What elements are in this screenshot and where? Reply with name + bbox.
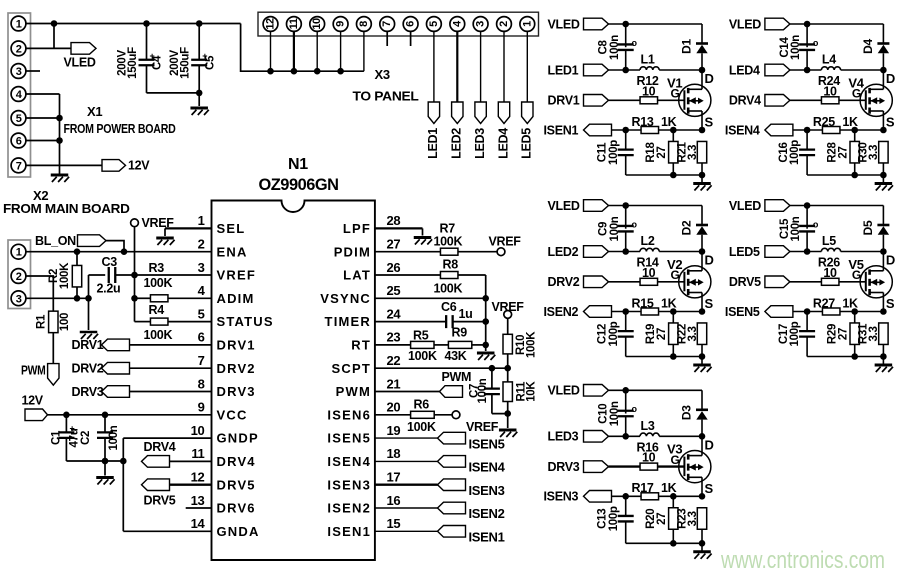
- svg-text:5: 5: [198, 306, 205, 321]
- svg-text:ISEN4: ISEN4: [725, 123, 760, 137]
- svg-text:PWM: PWM: [336, 384, 371, 399]
- wire inductor to drain: [841, 69, 884, 71]
- svg-text:100K: 100K: [408, 349, 437, 363]
- svg-text:C2: C2: [80, 431, 92, 445]
- svg-text:LED2: LED2: [548, 245, 579, 259]
- resistor R17 1K: [612, 495, 642, 497]
- ground: [198, 93, 200, 106]
- wire inductor to drain: [659, 251, 702, 253]
- net label LED2: [452, 102, 463, 124]
- capacitor C8 100n: [625, 24, 627, 47]
- svg-text:3: 3: [475, 21, 487, 27]
- svg-text:100p: 100p: [608, 321, 620, 346]
- svg-text:21: 21: [387, 376, 401, 391]
- node VREF: [504, 311, 512, 319]
- X2 pin 3: [11, 291, 26, 306]
- wire RT pin23: [375, 344, 411, 346]
- wire DRV3: [130, 391, 212, 393]
- svg-text:VLED: VLED: [548, 17, 580, 31]
- svg-text:DRV4: DRV4: [729, 94, 761, 108]
- svg-text:100p: 100p: [608, 140, 620, 165]
- resistor R2 100K: [76, 252, 78, 266]
- svg-text:R9: R9: [452, 325, 468, 339]
- svg-text:STATUS: STATUS: [217, 314, 274, 329]
- capacitor C16 100p: [806, 130, 808, 150]
- svg-text:R6: R6: [414, 397, 430, 411]
- connector X1: [8, 13, 31, 177]
- svg-text:ISEN2: ISEN2: [544, 305, 579, 319]
- wire BL_ON to ENA: [106, 241, 124, 252]
- svg-text:R4: R4: [149, 303, 165, 317]
- wire VREF to pin3: [135, 274, 212, 276]
- svg-text:S: S: [886, 296, 895, 311]
- wire VSYNC pin25: [375, 297, 486, 299]
- wire ISEN4 pin18: [375, 460, 438, 462]
- capacitor C17 100p: [806, 312, 808, 332]
- X3 pin 9: [333, 17, 348, 32]
- mosfet V1: [679, 84, 711, 116]
- diode D2: [701, 206, 703, 225]
- resistor R19 27: [672, 312, 674, 324]
- svg-text:1K: 1K: [842, 296, 858, 310]
- svg-text:27: 27: [656, 146, 668, 158]
- capacitor C5 200V 150uF: [196, 20, 203, 27]
- wire LED to inductor: [609, 69, 641, 71]
- svg-text:6: 6: [198, 330, 205, 345]
- wire PDIM pin27: [375, 251, 441, 253]
- svg-text:6: 6: [405, 21, 417, 27]
- svg-text:R1: R1: [36, 314, 48, 329]
- svg-text:10: 10: [642, 451, 656, 465]
- svg-text:C13: C13: [597, 509, 609, 529]
- svg-text:R13: R13: [632, 115, 654, 129]
- svg-text:L3: L3: [641, 419, 655, 433]
- svg-text:DRV3: DRV3: [72, 385, 104, 399]
- svg-text:3.3: 3.3: [868, 145, 880, 160]
- wire C3 node to ground: [88, 275, 90, 330]
- resistor R20 27: [672, 496, 674, 508]
- wire channel bottom: [626, 356, 702, 358]
- svg-text:+: +: [202, 51, 207, 61]
- node D: [880, 248, 887, 255]
- svg-text:12: 12: [265, 18, 277, 30]
- X1 pin 2: [11, 41, 26, 56]
- svg-text:SEL: SEL: [217, 221, 246, 236]
- svg-text:FROM MAIN BOARD: FROM MAIN BOARD: [3, 202, 130, 216]
- svg-text:www.cntronics.com: www.cntronics.com: [720, 547, 885, 574]
- resistor R11 10K: [503, 382, 512, 402]
- capacitor C2 100n: [104, 415, 106, 433]
- svg-text:L5: L5: [822, 234, 836, 248]
- svg-text:1u: 1u: [459, 307, 473, 321]
- X3 pin 10: [310, 17, 325, 32]
- svg-text:C10: C10: [598, 404, 610, 424]
- wire ISEN3 pin17: [375, 484, 438, 486]
- svg-text:10: 10: [823, 266, 837, 280]
- svg-text:3: 3: [16, 293, 22, 305]
- svg-text:100n: 100n: [477, 378, 489, 403]
- svg-text:o: o: [632, 38, 638, 48]
- svg-text:24: 24: [387, 306, 402, 321]
- svg-text:100p: 100p: [789, 321, 801, 346]
- svg-text:DRV3: DRV3: [217, 384, 256, 399]
- node D: [699, 67, 706, 74]
- wire ISEN6 pin20: [375, 414, 411, 416]
- wire 12V to VCC: [48, 414, 212, 416]
- connector X2: [8, 240, 31, 309]
- svg-text:2: 2: [498, 21, 510, 27]
- svg-text:D1: D1: [679, 39, 693, 54]
- resistor R25 1K: [793, 129, 823, 131]
- svg-text:8: 8: [358, 21, 370, 27]
- ground: [104, 461, 106, 476]
- svg-text:11: 11: [191, 446, 204, 461]
- ground: [701, 357, 703, 366]
- svg-text:19: 19: [387, 423, 401, 438]
- svg-text:ISEN5: ISEN5: [469, 436, 505, 451]
- wire DRV1: [130, 344, 212, 346]
- ground: [156, 237, 174, 240]
- junction: [804, 202, 811, 209]
- svg-text:o: o: [632, 219, 638, 229]
- svg-text:1: 1: [16, 19, 22, 31]
- svg-text:7: 7: [381, 21, 393, 27]
- wire C4 C5 bottom: [147, 92, 200, 94]
- svg-text:X2: X2: [33, 188, 48, 203]
- X3 pin 3: [473, 17, 488, 32]
- net label 12V: [102, 160, 126, 172]
- svg-text:LAT: LAT: [343, 268, 371, 283]
- wire X3 pin6 stub: [410, 31, 412, 46]
- wire ISEN2 pin16: [375, 507, 438, 509]
- svg-text:S: S: [886, 115, 895, 130]
- mosfet V2: [679, 266, 711, 298]
- svg-text:27: 27: [656, 513, 668, 525]
- svg-text:VSYNC: VSYNC: [320, 291, 371, 306]
- wire VLED top: [609, 23, 703, 25]
- svg-text:L2: L2: [641, 234, 655, 248]
- svg-text:VREF: VREF: [492, 300, 525, 314]
- svg-text:ENA: ENA: [217, 244, 248, 259]
- svg-text:100K: 100K: [434, 281, 463, 295]
- capacitor C1 47u: [65, 415, 67, 433]
- svg-text:25: 25: [387, 283, 401, 298]
- svg-text:X1: X1: [87, 104, 102, 119]
- resistor R5 100K: [411, 341, 434, 348]
- resistor R3 100K: [135, 297, 151, 299]
- resistor R7 100K: [440, 248, 458, 255]
- svg-text:GNDA: GNDA: [217, 524, 260, 539]
- capacitor C12 100p: [625, 312, 627, 332]
- svg-text:10: 10: [191, 423, 205, 438]
- svg-text:C3: C3: [102, 255, 118, 269]
- svg-text:100K: 100K: [407, 420, 436, 434]
- resistor R21 3.3: [697, 141, 706, 163]
- svg-text:20: 20: [387, 400, 401, 415]
- svg-text:100K: 100K: [434, 234, 463, 248]
- node VREF: [131, 219, 139, 227]
- wire X1 pins 4-6: [26, 93, 60, 95]
- svg-text:3.3: 3.3: [687, 326, 699, 341]
- svg-text:12: 12: [191, 470, 205, 485]
- svg-text:L1: L1: [641, 53, 655, 67]
- resistor R9 43K: [448, 341, 471, 348]
- svg-text:TO PANEL: TO PANEL: [353, 89, 419, 104]
- svg-text:LED1: LED1: [426, 128, 440, 159]
- X3 pin 6: [403, 17, 418, 32]
- svg-text:OZ9906GN: OZ9906GN: [259, 175, 339, 194]
- ground: [51, 174, 69, 177]
- resistor R12 10: [609, 99, 641, 101]
- X1 pin 4: [11, 87, 26, 102]
- net label LED4: [498, 102, 509, 124]
- resistor R29 27: [854, 312, 856, 324]
- wire C1 C2 bottom: [66, 460, 123, 462]
- svg-text:LED4: LED4: [729, 63, 760, 77]
- diode D1: [701, 24, 703, 43]
- resistor R14 10: [609, 281, 641, 283]
- svg-text:100K: 100K: [59, 262, 71, 289]
- svg-text:1K: 1K: [661, 481, 677, 495]
- ground: [882, 175, 884, 184]
- wire X3 pin 4 to LED2: [456, 31, 458, 102]
- svg-text:4: 4: [198, 283, 206, 298]
- svg-text:DRV4: DRV4: [217, 454, 256, 469]
- X3 pin 2: [497, 17, 512, 32]
- svg-text:o: o: [813, 38, 819, 48]
- wire X1 pin2: [26, 47, 71, 49]
- svg-text:G: G: [852, 87, 861, 101]
- svg-text:18: 18: [387, 446, 401, 461]
- node D: [699, 248, 706, 255]
- svg-text:ISEN1: ISEN1: [469, 530, 505, 545]
- capacitor C3 2.2u: [89, 274, 106, 276]
- svg-text:100n: 100n: [609, 216, 621, 241]
- svg-text:22: 22: [387, 353, 401, 368]
- net label ISEN1: [438, 526, 466, 538]
- wire DRV2: [130, 367, 212, 369]
- svg-text:3.3: 3.3: [868, 326, 880, 341]
- svg-text:100n: 100n: [790, 216, 802, 241]
- svg-text:C16: C16: [778, 142, 790, 162]
- wire LPF pin28: [375, 227, 423, 229]
- svg-text:DRV4: DRV4: [144, 440, 176, 454]
- svg-text:ISEN2: ISEN2: [469, 506, 505, 521]
- svg-text:ISEN4: ISEN4: [327, 454, 371, 469]
- diode D3: [701, 390, 703, 409]
- wire X3 pin 2 to LED4: [503, 31, 505, 102]
- capacitor C13 100p: [625, 496, 627, 516]
- wire SEL pin1 to ground: [165, 227, 212, 229]
- wire inductor to drain: [659, 435, 702, 437]
- svg-text:100n: 100n: [108, 425, 120, 450]
- svg-text:9: 9: [335, 21, 347, 27]
- junction: [622, 202, 629, 209]
- wire VREF rail: [134, 226, 136, 321]
- wires X3 pins 8-12 to bus: [270, 31, 272, 71]
- svg-text:ISEN5: ISEN5: [327, 431, 371, 446]
- X1 pin 6: [11, 133, 26, 148]
- svg-text:28: 28: [387, 213, 401, 228]
- svg-text:D5: D5: [861, 220, 875, 235]
- wire TIMER pin24: [375, 321, 447, 323]
- resistor R30 3.3: [879, 141, 888, 163]
- ground: [499, 429, 517, 432]
- svg-text:100n: 100n: [790, 35, 802, 60]
- svg-text:R5: R5: [413, 329, 429, 343]
- wire GNDP GNDA rail: [122, 438, 124, 531]
- svg-text:12V: 12V: [22, 394, 44, 408]
- svg-text:X3: X3: [375, 67, 390, 82]
- svg-text:D: D: [886, 71, 895, 86]
- capacitor C10 100n: [625, 390, 627, 413]
- svg-text:C6: C6: [441, 300, 457, 314]
- X3 pin 1: [520, 17, 535, 32]
- wire X1 pin1 to panel bus: [26, 23, 241, 25]
- svg-text:150uF: 150uF: [127, 47, 139, 79]
- svg-text:2: 2: [198, 237, 205, 252]
- svg-text:C1: C1: [51, 430, 63, 445]
- svg-text:ISEN2: ISEN2: [327, 501, 371, 516]
- resistor R16 10: [609, 465, 641, 467]
- node D: [699, 433, 706, 440]
- svg-text:ISEN5: ISEN5: [725, 305, 760, 319]
- svg-text:8: 8: [198, 376, 205, 391]
- svg-text:D: D: [705, 437, 714, 452]
- resistor R8 100K: [440, 272, 458, 279]
- svg-text:S: S: [705, 481, 714, 496]
- wire LED to inductor: [790, 69, 822, 71]
- svg-text:1: 1: [198, 213, 205, 228]
- svg-text:DRV3: DRV3: [548, 460, 580, 474]
- svg-text:11: 11: [288, 18, 300, 29]
- svg-text:R8: R8: [443, 258, 459, 272]
- junction: [622, 21, 629, 28]
- svg-text:16: 16: [387, 493, 401, 508]
- wire ISEN5 pin19: [375, 437, 438, 439]
- svg-text:C11: C11: [597, 142, 609, 162]
- svg-text:PWM: PWM: [442, 370, 472, 384]
- svg-text:R17: R17: [632, 481, 654, 495]
- wire VLED top: [609, 389, 703, 391]
- resistor R18 27: [672, 130, 674, 142]
- ground: [701, 175, 703, 184]
- svg-text:C12: C12: [597, 324, 609, 344]
- resistor R24 10: [790, 99, 822, 101]
- svg-text:DRV5: DRV5: [217, 477, 256, 492]
- wire PWM pin21: [375, 391, 440, 393]
- svg-text:7: 7: [16, 160, 22, 172]
- svg-text:S: S: [705, 115, 714, 130]
- svg-text:ISEN3: ISEN3: [327, 477, 371, 492]
- svg-text:FROM POWER BOARD: FROM POWER BOARD: [64, 122, 176, 136]
- svg-text:9: 9: [198, 400, 205, 415]
- svg-text:5: 5: [16, 113, 22, 125]
- resistor R1 100: [26, 276, 53, 315]
- svg-text:15: 15: [387, 516, 401, 531]
- svg-text:1K: 1K: [661, 115, 677, 129]
- svg-text:PDIM: PDIM: [334, 244, 371, 259]
- diode D4: [882, 24, 884, 43]
- svg-text:ISEN4: ISEN4: [469, 460, 506, 475]
- svg-text:o: o: [632, 404, 638, 414]
- inductor L3: [640, 433, 659, 436]
- X3 pin 12: [263, 17, 278, 32]
- svg-text:D2: D2: [679, 220, 693, 235]
- svg-text:DRV1: DRV1: [217, 338, 256, 353]
- svg-text:RT: RT: [351, 338, 371, 353]
- svg-text:100K: 100K: [144, 328, 173, 342]
- wire channel bottom: [807, 174, 883, 176]
- wire LED to inductor: [790, 251, 822, 253]
- diode D5: [882, 206, 884, 225]
- X3 pin 8: [357, 17, 372, 32]
- svg-text:10: 10: [311, 18, 323, 30]
- wire X3 pin 3 to LED3: [480, 31, 482, 102]
- svg-text:3: 3: [198, 260, 205, 275]
- wire X3 pin7 stub: [386, 31, 388, 46]
- svg-text:100K: 100K: [525, 331, 537, 358]
- resistor R10 100K: [507, 318, 509, 335]
- net label ISEN4: [438, 456, 466, 468]
- svg-text:1K: 1K: [661, 296, 677, 310]
- net label ISEN2: [438, 502, 466, 514]
- wire VLED top: [609, 205, 703, 207]
- capacitor C9 100n: [625, 206, 627, 229]
- svg-text:ISEN3: ISEN3: [544, 490, 579, 504]
- svg-text:27: 27: [387, 237, 401, 252]
- X3 pin 4: [450, 17, 465, 32]
- svg-text:VREF: VREF: [466, 420, 499, 434]
- svg-text:100K: 100K: [144, 276, 173, 290]
- wire ISEN1 pin15: [375, 530, 438, 532]
- resistor R31 3.3: [879, 323, 888, 345]
- capacitor C4 200V 150uF: [143, 20, 150, 27]
- X3 pin 7: [380, 17, 395, 32]
- svg-text:27: 27: [656, 328, 668, 340]
- svg-text:23: 23: [387, 330, 401, 345]
- svg-text:D3: D3: [679, 405, 693, 420]
- svg-text:3: 3: [16, 66, 22, 78]
- svg-text:ADIM: ADIM: [217, 291, 255, 306]
- ground: [414, 236, 432, 239]
- wire channel bottom: [626, 174, 702, 176]
- svg-text:100: 100: [59, 313, 71, 331]
- svg-text:10: 10: [642, 84, 656, 98]
- svg-text:LED1: LED1: [548, 63, 579, 77]
- net label LED5: [522, 102, 533, 124]
- svg-text:2.2u: 2.2u: [97, 282, 121, 296]
- junction: [622, 387, 629, 394]
- capacitor C6 1u: [446, 315, 453, 328]
- capacitor C7 100n: [491, 368, 493, 388]
- inductor L4: [821, 67, 840, 70]
- svg-text:150uF: 150uF: [180, 47, 192, 79]
- svg-text:3.3: 3.3: [687, 145, 699, 160]
- wire DRV5: [170, 484, 212, 486]
- svg-text:R3: R3: [149, 261, 165, 275]
- wire DRV6 stub: [186, 507, 212, 509]
- X3 pin 11: [287, 17, 302, 32]
- wire inductor to drain: [841, 251, 884, 253]
- svg-text:G: G: [852, 268, 861, 282]
- svg-text:6: 6: [16, 136, 22, 148]
- svg-text:VCC: VCC: [217, 407, 248, 422]
- svg-text:D: D: [705, 71, 714, 86]
- svg-text:1: 1: [521, 21, 533, 27]
- wire X1 pin7 12V: [26, 164, 102, 166]
- wire X2 pin3: [26, 297, 89, 299]
